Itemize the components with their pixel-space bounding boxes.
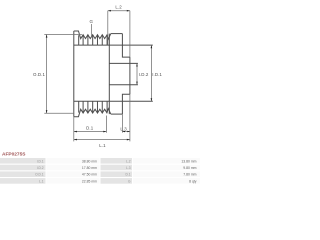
dimension O.D.1 extension top: [44, 34, 82, 36]
dimension D.1 line: [74, 131, 107, 133]
arrow O.D.1 bottom: [46, 110, 48, 113]
svg-text:I.D.2: I.D.2: [139, 72, 149, 77]
svg-text:L.3: L.3: [126, 166, 131, 170]
svg-text:I.D.2: I.D.2: [37, 166, 44, 170]
arrow D.1 left: [74, 131, 77, 133]
hub step top: [122, 34, 129, 58]
table label cells left column: [0, 158, 46, 164]
svg-text:L.2: L.2: [115, 5, 122, 10]
hub top edge: [111, 33, 123, 35]
svg-text:8 qty: 8 qty: [189, 179, 197, 183]
recess inner line bottom (I.D.1): [74, 100, 153, 102]
arrow L.2 left: [108, 10, 111, 12]
svg-text:L.2: L.2: [126, 159, 131, 163]
groove wall lines bottom: [79, 101, 107, 112]
svg-text:17.80 mm: 17.80 mm: [82, 166, 97, 170]
svg-text:D.1: D.1: [86, 125, 94, 130]
arrow O.D.1 top: [46, 35, 48, 38]
dimension D.1 extension right: [105, 116, 107, 133]
arrow D.1 right: [103, 131, 106, 133]
dimension O.D.1 line: [46, 35, 48, 114]
svg-text:9.80 mm: 9.80 mm: [183, 166, 196, 170]
table label cells right column: [101, 158, 133, 164]
arrow I.D.2 top: [136, 63, 138, 66]
svg-text:D.1: D.1: [126, 173, 131, 177]
spec table: [0, 158, 200, 184]
svg-text:13.80 mm: 13.80 mm: [181, 159, 196, 163]
arrow L.1 right: [127, 139, 130, 141]
svg-text:I.D.1: I.D.1: [37, 159, 44, 163]
svg-text:O.D.1: O.D.1: [35, 173, 44, 177]
svg-text:L.3: L.3: [120, 127, 127, 132]
pulley left face: [73, 31, 75, 117]
table value cells left column: [47, 158, 100, 164]
pulley bottom profile with V-grooves: [74, 109, 111, 117]
arrow I.D.1 top: [151, 45, 153, 48]
dimension L.1 line: [74, 139, 130, 141]
dimension L.2 extension left: [107, 11, 109, 45]
svg-text:G: G: [90, 19, 94, 24]
arrow L.3 left: [122, 131, 125, 132]
arrow I.D.2 bottom: [136, 82, 138, 85]
svg-text:L.1: L.1: [99, 143, 106, 148]
recess inner line top (I.D.1): [74, 44, 153, 46]
arrow L.2 right: [127, 10, 130, 12]
hub bottom edge: [111, 113, 123, 115]
left face extension for D.1 and L.1: [73, 117, 75, 142]
table value cells right column: [133, 158, 200, 164]
leader line G: [91, 24, 93, 38]
hub step bottom: [122, 94, 129, 114]
arrow L.3 right: [127, 131, 130, 132]
dimension O.D.1 extension bottom: [44, 112, 74, 114]
arrow L.1 left: [74, 139, 77, 141]
dimension L.3 extension left: [121, 114, 123, 133]
dimension I.D.1 line: [150, 45, 152, 101]
arrow I.D.1 bottom: [151, 98, 153, 101]
svg-text:O.D.1: O.D.1: [33, 72, 45, 77]
pulley top profile with V-grooves: [74, 31, 111, 39]
dimension L.2 line: [108, 10, 130, 12]
svg-text:L.1: L.1: [39, 179, 44, 183]
groove wall lines top: [79, 35, 107, 45]
svg-text:AFP0275S: AFP0275S: [2, 152, 26, 158]
svg-text:I.D.1: I.D.1: [152, 72, 162, 77]
bore line top (I.D.2): [109, 62, 138, 64]
svg-text:22.85 mm: 22.85 mm: [82, 179, 97, 183]
svg-text:47.50 mm: 47.50 mm: [82, 173, 97, 177]
extension/face line right x=129.9: [129, 11, 131, 142]
dimension I.D.2 line: [136, 63, 138, 84]
svg-text:7.80 mm: 7.80 mm: [183, 173, 196, 177]
svg-text:38.80 mm: 38.80 mm: [82, 159, 97, 163]
hub right face: [129, 57, 131, 94]
bore line bottom (I.D.2): [109, 84, 138, 86]
dimension L.3 line: [122, 131, 129, 133]
rim right face: [108, 34, 110, 115]
